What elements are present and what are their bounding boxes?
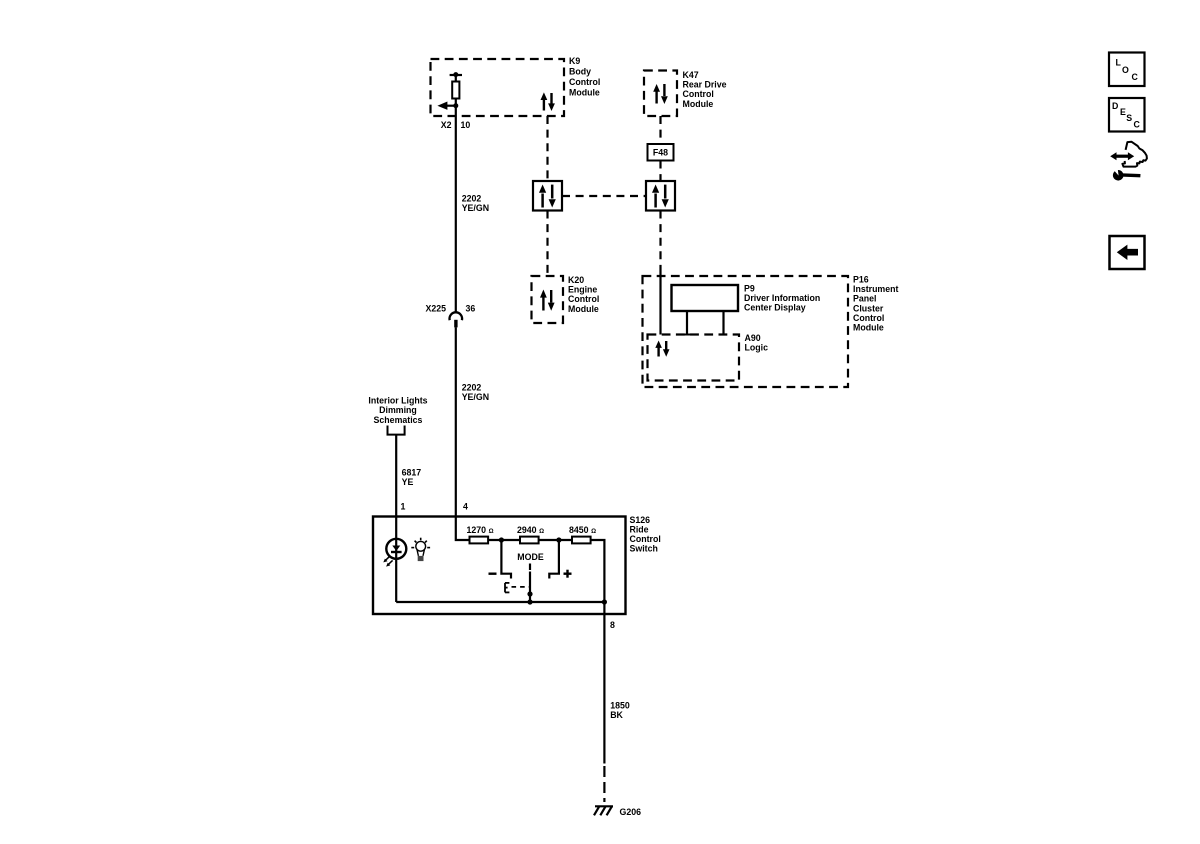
svg-text:C: C bbox=[1134, 120, 1141, 130]
wire (dashed) to ground bbox=[603, 766, 605, 802]
label A90 Logic bbox=[745, 333, 769, 353]
pin 1 bbox=[401, 502, 406, 512]
wire bbox=[539, 539, 572, 541]
label K20 Engine Control Module bbox=[568, 275, 599, 314]
svg-text:X225: X225 bbox=[425, 303, 446, 313]
switch contact plus bbox=[549, 540, 559, 579]
label P9 Driver Information Center Display bbox=[744, 284, 820, 313]
wire to right and down to bus bbox=[591, 540, 605, 602]
svg-text:Engine: Engine bbox=[568, 285, 597, 295]
lamp (illumination bulb) bbox=[411, 538, 430, 561]
wire label 6817 YE bbox=[402, 468, 422, 487]
svg-text:F48: F48 bbox=[653, 148, 668, 158]
node junction at X2 bbox=[453, 103, 458, 108]
wire label 2202 YE/GN (lower) bbox=[462, 383, 489, 402]
node bbox=[499, 537, 504, 542]
svg-text:Schematics: Schematics bbox=[374, 415, 423, 425]
svg-text:YE: YE bbox=[402, 477, 414, 487]
svg-text:2202: 2202 bbox=[462, 193, 482, 203]
LED light arrows bbox=[383, 556, 392, 566]
svg-text:S126: S126 bbox=[630, 515, 651, 525]
pin label X2 bbox=[441, 120, 452, 130]
wire (dashed) right box up to F48 bbox=[659, 161, 661, 182]
LED D1 bbox=[386, 539, 406, 559]
svg-text:1: 1 bbox=[401, 502, 406, 512]
wire pin1 through LED to bottom bus bbox=[395, 517, 397, 603]
svg-text:YE/GN: YE/GN bbox=[462, 392, 489, 402]
module box K47 bbox=[644, 71, 677, 117]
svg-text:K9: K9 bbox=[569, 56, 580, 66]
wire bbox=[488, 539, 520, 541]
svg-text:Control: Control bbox=[630, 534, 661, 544]
svg-text:S: S bbox=[1126, 113, 1132, 123]
svg-text:Control: Control bbox=[569, 77, 600, 87]
wire (dashed) F48 up to K47 bbox=[659, 116, 661, 144]
connector X225 bbox=[449, 312, 462, 320]
serial data arrows (K47) bbox=[653, 84, 668, 104]
arrow (off-page, X2) bbox=[445, 105, 456, 107]
svg-text:Instrument: Instrument bbox=[853, 284, 899, 294]
wire label 1850 BK bbox=[610, 701, 630, 720]
svg-text:1270 Ω: 1270 Ω bbox=[467, 525, 494, 535]
svg-text:P16: P16 bbox=[853, 275, 869, 285]
svg-text:YE/GN: YE/GN bbox=[462, 203, 489, 213]
wire label 2202 YE/GN (upper) bbox=[462, 193, 489, 213]
fuse F48 bbox=[648, 144, 674, 161]
svg-text:2940 Ω: 2940 Ω bbox=[517, 525, 544, 535]
resistor 8450 ohm bbox=[572, 537, 591, 544]
svg-text:D: D bbox=[1112, 101, 1118, 111]
svg-text:Module: Module bbox=[568, 304, 599, 314]
svg-text:Panel: Panel bbox=[853, 294, 876, 304]
diagnostic icon (component with arrows and wrench) bbox=[1110, 142, 1147, 181]
svg-text:Module: Module bbox=[569, 88, 600, 98]
wrench bbox=[1113, 170, 1124, 181]
component outline bbox=[1122, 142, 1147, 167]
svg-text:4: 4 bbox=[463, 502, 468, 512]
svg-text:E: E bbox=[1120, 107, 1126, 117]
wire X225 down to S126 pin 4 bbox=[455, 327, 457, 516]
wire (dashed) right data box down to P16 bbox=[659, 211, 661, 268]
wire pin 8 down bbox=[603, 602, 605, 764]
svg-text:8450 Ω: 8450 Ω bbox=[569, 525, 596, 535]
pin 4 bbox=[463, 502, 468, 512]
svg-text:Module: Module bbox=[683, 99, 714, 109]
switch pole (MODE) bbox=[529, 564, 531, 571]
bottom bus wire bbox=[396, 601, 604, 603]
label P16 Instrument Panel Cluster Control Module bbox=[853, 275, 899, 333]
serial data arrows (K20) bbox=[540, 290, 555, 311]
label K9 Body Control Module bbox=[569, 56, 600, 98]
svg-text:Control: Control bbox=[568, 294, 599, 304]
svg-text:8: 8 bbox=[610, 620, 615, 630]
wire from schematics note to S126 pin 1 bbox=[395, 435, 397, 517]
label K47 Rear Drive Control Module bbox=[683, 70, 727, 109]
svg-text:Dimming: Dimming bbox=[379, 405, 417, 415]
svg-text:O: O bbox=[1122, 65, 1129, 75]
svg-text:C: C bbox=[1132, 72, 1139, 82]
svg-text:Module: Module bbox=[853, 323, 884, 333]
data link connector box (left) bbox=[533, 181, 562, 211]
wire (dashed) K9 to DLC box bbox=[546, 116, 548, 181]
svg-text:Interior Lights: Interior Lights bbox=[368, 396, 427, 406]
off-page bracket bbox=[388, 426, 405, 435]
DESC button bbox=[1109, 98, 1145, 132]
display P9 bbox=[672, 285, 739, 311]
data link connector box (right) bbox=[646, 181, 675, 211]
module box P16 bbox=[643, 276, 849, 387]
LOC button bbox=[1109, 53, 1145, 87]
svg-text:Switch: Switch bbox=[630, 544, 658, 554]
svg-text:Rear Drive: Rear Drive bbox=[683, 80, 727, 90]
svg-text:10: 10 bbox=[461, 120, 471, 130]
svg-text:MODE: MODE bbox=[517, 552, 544, 562]
svg-text:K47: K47 bbox=[683, 70, 699, 80]
svg-text:L: L bbox=[1116, 58, 1122, 68]
pin 10 bbox=[461, 120, 471, 130]
logic block A90 bbox=[648, 335, 740, 381]
double arrow bbox=[1115, 155, 1130, 158]
svg-text:G206: G206 bbox=[620, 807, 642, 817]
svg-text:Body: Body bbox=[569, 67, 591, 77]
svg-text:Ride: Ride bbox=[630, 525, 649, 535]
svg-text:36: 36 bbox=[466, 303, 476, 313]
svg-text:Control: Control bbox=[683, 89, 714, 99]
label S126 Ride Control Switch bbox=[630, 515, 661, 554]
wire from K9 resistor down to X225 bbox=[455, 99, 457, 313]
switch box S126 bbox=[373, 517, 626, 615]
svg-text:Control: Control bbox=[853, 313, 884, 323]
label MODE bbox=[517, 552, 544, 562]
serial data arrows (A90) bbox=[655, 341, 669, 357]
note Interior Lights Dimming Schematics bbox=[368, 396, 427, 425]
svg-text:BK: BK bbox=[610, 710, 623, 720]
svg-text:Driver Information: Driver Information bbox=[744, 293, 820, 303]
node bbox=[556, 537, 561, 542]
svg-text:K20: K20 bbox=[568, 275, 584, 285]
svg-text:Center Display: Center Display bbox=[744, 303, 806, 313]
resistor 2940 ohm bbox=[520, 537, 539, 544]
wire (dashed) between data link boxes bbox=[562, 195, 646, 197]
svg-text:A90: A90 bbox=[745, 333, 761, 343]
wire (dashed) left data box down to K20 bbox=[546, 211, 548, 277]
back button bbox=[1110, 236, 1145, 269]
module box K9 bbox=[431, 59, 565, 116]
switch actuator bracket bbox=[505, 583, 530, 593]
wire pin4 into resistor row bbox=[456, 517, 470, 541]
P9 leg pins bbox=[686, 311, 688, 335]
svg-text:X2: X2 bbox=[441, 120, 452, 130]
svg-text:Cluster: Cluster bbox=[853, 303, 884, 313]
svg-text:P9: P9 bbox=[744, 284, 755, 294]
resistor (internal, K9) bbox=[450, 74, 462, 76]
wire (solid) into P16 down to A90 bbox=[659, 268, 661, 335]
svg-text:Logic: Logic bbox=[745, 343, 769, 353]
switch contact minus bbox=[501, 540, 511, 579]
serial data arrows (K9) bbox=[541, 92, 555, 111]
ground G206 bbox=[594, 806, 613, 815]
module box K20 bbox=[532, 276, 564, 323]
pin 8 bbox=[610, 620, 615, 630]
resistor 1270 ohm bbox=[470, 537, 489, 544]
